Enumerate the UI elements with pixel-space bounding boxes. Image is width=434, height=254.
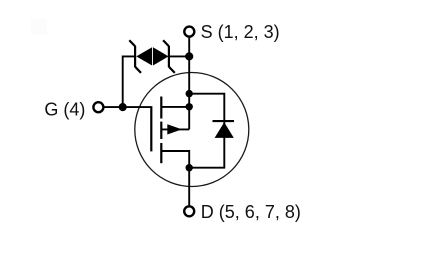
MOSFET Q1 body arrow (points right, p-channel) <box>167 124 182 134</box>
zener D2 cathode bend bottom-right <box>169 67 175 73</box>
MOSFET Q1 channel segment middle (body) <box>160 122 162 139</box>
wire: body diode branch (S dot right, down, left to D dot) <box>189 94 224 168</box>
wire: drain connection down to D terminal <box>161 151 189 206</box>
node: drain/diode junction dot <box>186 164 193 171</box>
zener D1 left cathode bar <box>134 46 136 67</box>
node: zener/S junction dot <box>185 52 193 60</box>
wire: zener right segment to S line <box>169 55 189 57</box>
svg-text:S (1, 2, 3): S (1, 2, 3) <box>201 22 280 42</box>
node: gate/zener junction dot <box>119 103 127 111</box>
wire: gate lead from G terminal to gate electrode <box>104 106 152 108</box>
zener D2 right cathode bar <box>168 46 170 67</box>
wire: zener left segment and drop to gate wire <box>123 56 135 107</box>
body diode D3 triangle (anode below, pointing up) <box>215 122 234 138</box>
wire: source connection to S line <box>161 106 189 108</box>
svg-text:G (4): G (4) <box>44 100 85 120</box>
terminal D open circle <box>184 206 194 216</box>
zener D2 cathode bend top-left <box>163 40 169 46</box>
wire: body connection with arrow <box>161 128 189 130</box>
wire: S lead vertical from S terminal down to body-connection corner <box>188 37 190 129</box>
package circle (transistor outline) <box>135 73 249 187</box>
MOSFET Q1 channel segment bottom (drain) <box>160 143 162 163</box>
MOSFET Q1 channel segment top (source) <box>160 97 162 119</box>
zener D2 triangle (anode left) <box>153 47 169 65</box>
MOSFET Q1 gate electrode bar <box>150 106 152 151</box>
zener D1 cathode bend top-left <box>129 40 135 46</box>
node: source/diode junction dot <box>186 90 193 97</box>
zener D1 cathode bend bottom-right <box>135 67 141 73</box>
body diode D3 cathode bar <box>213 120 235 122</box>
svg-text:D (5, 6, 7, 8): D (5, 6, 7, 8) <box>201 202 301 222</box>
terminal S open circle <box>184 27 194 37</box>
node: source/body junction dot <box>186 103 193 110</box>
zener D1 triangle (anode right) <box>136 47 152 65</box>
terminal G open circle <box>93 102 103 112</box>
